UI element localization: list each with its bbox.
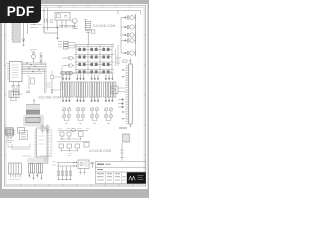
- capacitor C11: [37, 164, 43, 174]
- bus wire: [57, 141, 90, 143]
- bus entry hatch: [59, 25, 75, 27]
- wire: [59, 179, 71, 181]
- net label: [119, 127, 127, 129]
- diode D1: [62, 108, 65, 111]
- resistor R7: [28, 75, 30, 89]
- main top bus wire: [44, 10, 118, 12]
- junction: [13, 94, 14, 95]
- capacitor C12: [91, 162, 95, 168]
- display DS3: [89, 82, 102, 97]
- wire: [52, 66, 62, 92]
- IC U6: [20, 131, 28, 140]
- resistor R17: [58, 41, 62, 43]
- wire: [129, 59, 131, 65]
- arrow: [51, 90, 53, 94]
- capacitor C8: [67, 144, 72, 148]
- capacitor C3: [73, 27, 78, 29]
- arrow: [66, 123, 110, 125]
- regulator U3: [55, 13, 70, 21]
- wire: [42, 28, 58, 39]
- resistor R14: [58, 163, 60, 180]
- regulator U7: [78, 160, 89, 169]
- keypad bus wire: [75, 44, 115, 46]
- junction: [26, 62, 39, 72]
- badge PDF: [0, 0, 41, 23]
- resistor R16: [66, 166, 68, 180]
- wire: [64, 120, 69, 122]
- key S6: [103, 56, 105, 59]
- capacitor C1: [35, 15, 39, 21]
- connector J5: [6, 128, 14, 135]
- frame ruler ticks sides: [4, 35, 146, 155]
- U2 left pins: [35, 130, 37, 157]
- resistor R12: [42, 125, 44, 134]
- title block: [96, 162, 146, 184]
- net label: [46, 156, 52, 158]
- junction: [122, 99, 124, 101]
- node A: [28, 18, 37, 22]
- resistor R13: [47, 125, 49, 134]
- net label: [30, 50, 37, 52]
- resistor R1: [28, 14, 33, 16]
- IC U5: [6, 129, 14, 136]
- transistor Q7: [62, 114, 65, 117]
- connector J1: [10, 8, 16, 14]
- DIP switch SW2: [9, 163, 22, 174]
- wire: [121, 143, 124, 157]
- transistor Q11: [79, 132, 84, 137]
- diode D5: [67, 132, 71, 136]
- arrow: [74, 162, 76, 167]
- wire: [78, 120, 83, 122]
- SW2 labels: [10, 179, 21, 181]
- transistor Q11: [90, 114, 93, 117]
- wire: [118, 100, 123, 108]
- key S12: [103, 71, 105, 74]
- ground: [120, 158, 124, 161]
- header J6: [13, 22, 20, 42]
- transistor Q1: [121, 17, 127, 19]
- transistor Q2: [121, 26, 127, 28]
- U2 pin labels: [50, 130, 53, 157]
- transistor Q9: [76, 114, 79, 117]
- diode D4: [81, 108, 84, 111]
- U1 right pins / data bus wires: [22, 63, 46, 73]
- transistor Q13: [32, 55, 36, 59]
- wire: [92, 120, 97, 122]
- opto U4: [111, 86, 118, 94]
- capacitor C2: [64, 16, 68, 18]
- IC U2: [37, 128, 48, 157]
- net label: [52, 162, 56, 166]
- polarized capacitor C16: [50, 75, 54, 79]
- junction: [61, 138, 81, 139]
- diode D6: [95, 108, 98, 111]
- capacitor C14: [86, 31, 90, 45]
- display DS4: [103, 82, 116, 97]
- resistor pack RP1: [61, 72, 65, 75]
- transistor Q8: [67, 114, 70, 117]
- wire: [118, 11, 141, 15]
- key S9: [103, 63, 105, 66]
- J3 pin stubs: [126, 66, 129, 124]
- switch SW1: [18, 128, 25, 134]
- title text: [97, 163, 104, 165]
- polarity mark: [28, 175, 38, 177]
- resistor R15: [62, 166, 64, 180]
- MCU U1: [10, 62, 23, 82]
- crystal Y2: [123, 134, 130, 142]
- zone label: [57, 6, 62, 8]
- capacitor C6: [26, 91, 30, 93]
- wire: [16, 10, 46, 12]
- highlight: [23, 115, 44, 127]
- junction: [57, 27, 58, 28]
- net label: [116, 58, 121, 64]
- resistor R21: [70, 166, 72, 180]
- wire: [116, 45, 119, 66]
- transistor Q3: [121, 34, 127, 36]
- transistor Q13: [104, 114, 107, 117]
- transistor Q5: [121, 52, 127, 54]
- wire: [60, 136, 81, 139]
- resistor R20: [123, 60, 128, 62]
- key S4: [79, 56, 81, 59]
- transistor Q17: [63, 71, 69, 75]
- diode D5: [90, 108, 93, 111]
- key S10: [79, 71, 81, 74]
- relay K1: [60, 132, 64, 136]
- svg-text:GZUIGB.COM: GZUIGB.COM: [93, 24, 116, 28]
- driver bus wire: [60, 72, 114, 74]
- diode D3: [76, 108, 79, 111]
- wire: [79, 169, 86, 175]
- diode D7: [104, 108, 107, 111]
- page: [2, 4, 148, 189]
- wire: [45, 63, 47, 93]
- key S1: [79, 48, 81, 51]
- socket shading: [35, 159, 49, 164]
- header J7: [45, 19, 48, 23]
- display DS2: [75, 82, 88, 97]
- net label: [47, 83, 52, 87]
- polarized capacitor C15: [50, 20, 53, 23]
- wire: [57, 20, 66, 28]
- key S3: [103, 48, 105, 51]
- U1 left pins: [7, 64, 10, 79]
- transistor Q15: [63, 56, 69, 60]
- logo: [127, 172, 146, 183]
- wire: [14, 82, 19, 96]
- transistor Q10: [81, 114, 84, 117]
- diode D6: [84, 143, 89, 148]
- transistor Q14: [109, 114, 112, 117]
- header J4: [26, 118, 40, 123]
- key S7: [79, 63, 81, 66]
- diode D7: [22, 22, 24, 43]
- transistor Q16: [63, 64, 69, 68]
- junction: [7, 137, 8, 138]
- junction: [61, 150, 78, 151]
- transistor Q4: [121, 40, 127, 42]
- diode D8: [109, 108, 112, 111]
- capacitor C10: [29, 164, 35, 174]
- capacitor C7: [59, 144, 64, 148]
- crystal Y1: [12, 86, 21, 88]
- wire: [121, 14, 136, 56]
- resistor network RN1: [26, 105, 40, 117]
- connector J3: [129, 64, 132, 124]
- junction: [76, 162, 77, 163]
- junction: [51, 89, 52, 90]
- keypad row wire: [75, 47, 115, 70]
- label L3: [68, 154, 72, 156]
- wire: [20, 11, 30, 20]
- wire: [30, 25, 42, 28]
- svg-text:GZUIGB.COM: GZUIGB.COM: [89, 149, 112, 153]
- wire: [33, 100, 35, 105]
- wire: [44, 8, 48, 32]
- transistor Q12: [95, 114, 98, 117]
- transistor Q14: [40, 52, 43, 64]
- junction: [58, 179, 71, 180]
- key S8: [91, 63, 93, 66]
- net label: [22, 155, 47, 157]
- sheet border frame: [4, 6, 145, 186]
- header J2: [85, 20, 87, 32]
- display DS1: [61, 82, 74, 97]
- frame ruler ticks top: [18, 6, 130, 8]
- diode D2: [67, 108, 70, 111]
- net label: [58, 128, 90, 130]
- key S5: [91, 56, 93, 59]
- resistor R19: [58, 46, 62, 48]
- svg-text:GZUIGB.COM: GZUIGB.COM: [38, 95, 61, 99]
- U2 inner text: [39, 136, 45, 144]
- junction: [122, 69, 131, 126]
- frame ruler ticks bottom: [21, 184, 133, 186]
- capacitor C9: [75, 144, 80, 148]
- key S11: [91, 71, 93, 74]
- buzzer LS1: [9, 91, 19, 98]
- bus wire: [58, 130, 88, 132]
- arrow: [23, 43, 25, 46]
- canvas background: [0, 0, 149, 198]
- junction: [33, 178, 42, 179]
- highlight: [27, 158, 44, 165]
- wire: [57, 163, 76, 167]
- keypad column wire: [76, 45, 112, 75]
- resistor R18: [58, 43, 62, 45]
- wire: [106, 120, 111, 122]
- transistor Q6: [72, 18, 77, 23]
- wire: [27, 22, 29, 34]
- U2 right pins: [47, 130, 49, 157]
- wire: [8, 144, 30, 149]
- wire: [61, 148, 77, 151]
- key S2: [91, 48, 93, 51]
- motor M1: [72, 128, 76, 132]
